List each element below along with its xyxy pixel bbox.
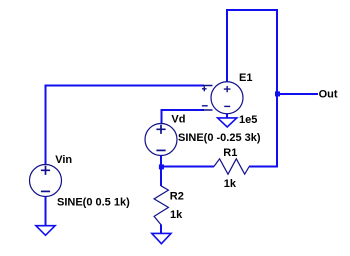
wire E1 bottom pin (226, 114, 228, 118)
wire Vin top to E1 + input (46, 86, 205, 165)
svg-text:SINE(0 0.5 1k): SINE(0 0.5 1k) (57, 197, 130, 209)
wire R1 right to vertical (249, 166, 278, 168)
junction node Vd/R1/R2 (159, 164, 164, 169)
svg-text:Out: Out (319, 88, 338, 100)
resistor R2 (154, 186, 168, 225)
svg-text:Vd: Vd (171, 113, 185, 125)
wire junction to R1 (161, 166, 214, 168)
svg-text:SINE(0 -0.25 3k): SINE(0 -0.25 3k) (178, 132, 261, 144)
svg-text:1k: 1k (170, 209, 183, 221)
wire Vin bottom pin (45, 197, 47, 227)
ground under R2 (152, 233, 171, 243)
svg-text:E1: E1 (239, 72, 252, 84)
wire R2 top (160, 167, 162, 187)
voltage source Vd (145, 124, 177, 156)
ground under Vin (36, 226, 55, 236)
wire Vd top to E1 - input (162, 110, 205, 124)
op-amp VCVS E1 (202, 82, 243, 114)
wire top feedback horizontal (226, 9, 278, 11)
wire Vd bottom pin (160, 156, 162, 167)
wire right vertical (276, 9, 278, 167)
wire R2 bottom (160, 225, 162, 234)
svg-text:R2: R2 (170, 190, 184, 202)
svg-text:1e5: 1e5 (239, 114, 257, 126)
svg-text:Vin: Vin (55, 154, 72, 166)
ground under E1 (218, 118, 237, 127)
wire E1 top pin (226, 10, 228, 82)
voltage source Vin (30, 165, 62, 197)
svg-text:R1: R1 (223, 147, 237, 159)
resistor R1 (214, 159, 249, 174)
junction node Out (275, 91, 280, 96)
svg-text:1k: 1k (224, 178, 237, 190)
wire out stub (277, 93, 318, 95)
